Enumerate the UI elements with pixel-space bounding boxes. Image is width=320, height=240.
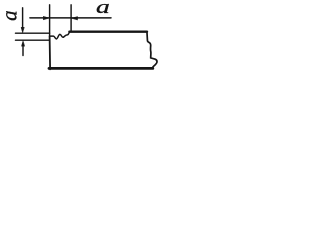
left dimension: upper extension line <box>16 32 50 34</box>
workpiece top edge <box>69 31 147 33</box>
left dimension lower arrow line <box>22 46 24 56</box>
step surface + wavy allowance boundary <box>50 32 70 39</box>
svg-text:a: a <box>0 10 21 20</box>
top dimension: left extension line <box>49 5 51 36</box>
top dimension: right extension line <box>70 5 72 31</box>
top dimension arrowhead left-pointing <box>71 17 77 20</box>
workpiece left edge <box>49 36 52 69</box>
label a (left dimension, rotated) <box>0 10 21 20</box>
left dimension upper arrow line <box>22 8 24 28</box>
left dimension: lower extension line <box>16 39 50 41</box>
left dimension arrowhead up-pointing <box>21 41 24 47</box>
break line (freehand broken-off right end) <box>147 33 157 68</box>
label a (top dimension) <box>96 0 110 18</box>
top dimension arrowhead right-pointing <box>43 16 49 19</box>
svg-text:a: a <box>96 0 110 18</box>
left dimension arrowhead down-pointing <box>21 27 24 33</box>
top dimension line <box>30 17 111 19</box>
workpiece bottom edge <box>49 67 153 70</box>
